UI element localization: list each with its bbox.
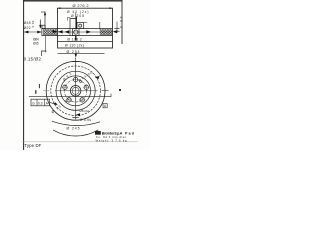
CL bottom tick <box>72 116 78 118</box>
center bore box on band <box>73 29 79 36</box>
center bore circle <box>74 30 78 34</box>
extension line above band right <box>99 22 101 29</box>
svg-text:Pad: Pad <box>125 132 134 136</box>
flat arc 2 <box>53 130 98 136</box>
centerline axis <box>75 13 77 19</box>
band left lip box <box>42 25 45 28</box>
svg-text:Ø 276.2: Ø 276.2 <box>73 3 89 8</box>
svg-text:Ø 245: Ø 245 <box>67 127 80 131</box>
bolt circle dash-dot <box>64 80 86 102</box>
svg-text:M8 (2x): M8 (2x) <box>79 109 89 113</box>
svg-text:46.4: 46.4 <box>31 21 35 28</box>
arrow pair at x57 <box>53 30 63 34</box>
stud hole box <box>77 23 84 29</box>
pin hole <box>80 80 82 82</box>
left margin ext line with up arrow <box>44 12 46 29</box>
bore circle <box>70 86 81 97</box>
arrow right inner band <box>86 30 91 33</box>
GDT feature frame <box>31 99 50 106</box>
hat step outline <box>70 19 76 29</box>
svg-text:0.15/Ø2: 0.15/Ø2 <box>24 56 42 61</box>
svg-text:Weight: 3 7.6 kg: Weight: 3 7.6 kg <box>96 138 127 142</box>
hatch left <box>43 29 58 35</box>
svg-text:Ø22: Ø22 <box>24 26 31 30</box>
svg-text:Type DF: Type DF <box>24 143 41 148</box>
frame left border <box>23 0 25 150</box>
arrow at right band edge <box>113 30 118 33</box>
table line bottom <box>22 141 138 143</box>
GDT leader arrow <box>50 102 57 104</box>
bolt hole 1 top <box>73 77 77 81</box>
left margin line with down arrow <box>39 20 41 29</box>
ring3 <box>56 71 95 110</box>
flat arc 1 <box>52 121 100 125</box>
right margin tick bars <box>114 27 119 29</box>
rim tick left <box>43 90 50 92</box>
frame right partial border <box>121 0 123 44</box>
hatch right <box>100 29 113 35</box>
leader down arrow at CL <box>75 53 78 57</box>
svg-text:Ø 6.6s: Ø 6.6s <box>80 118 91 122</box>
band left edge <box>41 25 43 35</box>
svg-text:Ø 108.2: Ø 108.2 <box>67 38 82 42</box>
vertical centerline <box>75 58 77 120</box>
bore inner ring <box>72 87 79 94</box>
hat wall extension <box>69 29 71 36</box>
svg-text:Ø 205: Ø 205 <box>71 14 84 18</box>
band bottom line <box>42 35 113 37</box>
ring2 dashed <box>51 66 101 116</box>
bolt hole cross ticks <box>73 77 79 83</box>
tiny mark right edge <box>119 89 121 91</box>
bracket marks above <box>42 51 47 56</box>
arrow left inner band <box>65 30 70 33</box>
long horizontal dim line <box>29 96 111 98</box>
leader line under text <box>58 53 105 55</box>
bolt hole 2 <box>84 85 88 89</box>
datum A box on outer circle <box>103 104 107 108</box>
section dim rectangle <box>58 8 113 48</box>
svg-text:0.3: 0.3 <box>38 101 43 105</box>
hat circle <box>61 76 91 106</box>
tiny mark left <box>39 84 40 88</box>
svg-text:⊙: ⊙ <box>32 102 35 106</box>
leader arrow upper right <box>96 75 101 77</box>
bolt hole 3 <box>80 98 84 102</box>
logo line 1 <box>95 131 101 135</box>
section inner dim line <box>58 41 113 43</box>
svg-text:Ø 110 (2x): Ø 110 (2x) <box>65 44 84 48</box>
bolt hole 5 <box>63 85 67 89</box>
svg-text:Ø15: Ø15 <box>33 41 39 45</box>
svg-text:Ø45: Ø45 <box>24 21 31 25</box>
leader ext line down from band <box>45 36 47 53</box>
arrow at CL below hub <box>76 113 80 116</box>
bolt hole 4 <box>67 98 71 102</box>
dim line across band <box>58 31 113 33</box>
outer circle <box>46 61 105 120</box>
rim tick right <box>102 90 109 92</box>
CL top tick <box>72 61 79 63</box>
band top line <box>42 28 113 30</box>
stud hole circle <box>79 24 82 27</box>
frame top border <box>23 0 122 2</box>
dim arrows top line <box>58 7 113 9</box>
horizontal centerline short <box>55 90 98 92</box>
gap dimension arrows at band height <box>24 31 41 33</box>
